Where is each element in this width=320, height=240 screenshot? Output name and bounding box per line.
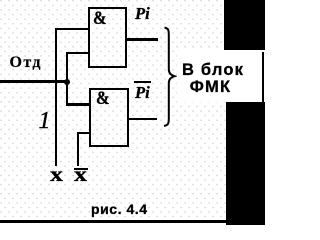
label 1 (wire X) [39, 109, 51, 133]
junction dot on Отд line [64, 79, 70, 85]
AND gate U1 (top) [88, 7, 128, 68]
label Pi-bar text (output of U2) [135, 85, 150, 102]
wire U1 output [127, 38, 159, 40]
wire vertical branch of Отд (net OTD) [66, 52, 68, 106]
wire Отд horizontal line [0, 80, 67, 83]
black scan bar right: scalloped top teeth [226, 100, 264, 102]
wire elbow XBAR to U2 input 2 [77, 132, 91, 135]
label Отд [10, 55, 42, 71]
black scan bar top right [224, 0, 265, 52]
wire elbow OTD to U2 input 1 [66, 103, 91, 106]
label & of U1 [93, 10, 107, 29]
wire elbow from X line to U1 input 1 [55, 28, 88, 31]
label x-bar overline [74, 168, 88, 170]
label x-bar letter [74, 165, 87, 185]
callout box right border [262, 52, 264, 102]
wire x-bar vertical (net XBAR) [77, 132, 79, 166]
black scan bar right [226, 102, 266, 226]
wire U2 output [129, 118, 158, 120]
label x [50, 165, 63, 185]
label Pi (output of U1) [135, 6, 150, 23]
label Pi-bar overline [134, 81, 151, 83]
curly brace [159, 24, 179, 130]
caption рис. 4.4 [91, 202, 148, 216]
bottom horizontal rule [0, 220, 228, 223]
wire x vertical (net X) [55, 28, 58, 166]
label В блок ФМК [182, 62, 243, 97]
white strip below rule [0, 223, 225, 225]
black scan bar top-right small step [254, 52, 263, 54]
wire elbow OTD to U1 input 2 [66, 52, 89, 54]
AND gate U2 (bottom) [89, 88, 129, 147]
white callout box В блок ФМК [177, 50, 265, 102]
label & of U2 [96, 90, 110, 109]
